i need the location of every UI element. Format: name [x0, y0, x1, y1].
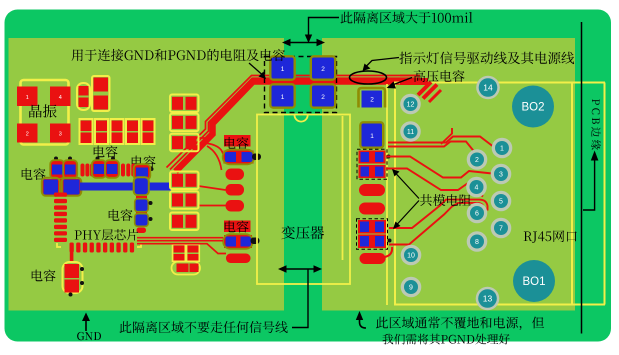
svg-text:12: 12 [407, 102, 415, 109]
label: GND-PGND bridge note [72, 49, 286, 61]
GND arrow [85, 316, 87, 331]
pin 8 [467, 231, 488, 252]
pin 3 [491, 164, 512, 185]
mount pin 14 [476, 76, 500, 100]
bottom edge extension [572, 304, 605, 306]
svg-text:14: 14 [483, 83, 493, 93]
svg-text:1: 1 [26, 95, 29, 101]
pin 5 [491, 191, 512, 212]
pin pill 4 [226, 254, 251, 264]
corner arrow [360, 315, 367, 328]
capacitor pad grid (5 x 2) [80, 119, 93, 144]
red zone under label [224, 221, 251, 233]
crystal pad 4 [50, 87, 71, 107]
svg-text:2: 2 [370, 97, 374, 104]
svg-text:2: 2 [321, 66, 325, 73]
pin 1 [492, 138, 513, 159]
hook to label [583, 160, 595, 210]
svg-text:2: 2 [475, 157, 479, 164]
svg-text:1: 1 [281, 66, 285, 73]
oval 2-pad comp [172, 262, 201, 275]
pin 2 [467, 149, 488, 170]
blue power bus [80, 183, 171, 191]
leader line for isolation note [309, 18, 340, 37]
capacitor C bottom [63, 262, 83, 293]
label: GND [77, 332, 101, 340]
svg-text:1: 1 [370, 133, 374, 140]
red bars [121, 164, 125, 177]
leader down to note [292, 269, 308, 328]
pad 2 [362, 91, 383, 108]
choke caps C/D [358, 220, 386, 234]
svg-text:3: 3 [499, 172, 503, 179]
crystal pad 3 [50, 124, 71, 143]
label: capacitor (xfmr left top) [225, 137, 249, 149]
PCB inner copper plane (yellow-green) [9, 38, 576, 311]
bus end pad [135, 178, 149, 195]
pill 3 [360, 253, 386, 264]
pin 4 [466, 177, 487, 198]
svg-text:BO1: BO1 [522, 276, 545, 288]
isolation width arrow (bottom) [283, 268, 317, 270]
red bus into RJ45 [400, 75, 420, 77]
svg-text:5: 5 [499, 199, 503, 206]
RJ45 region outline [395, 83, 572, 305]
leader to ellipse [366, 58, 400, 68]
transformer pin pills [226, 169, 245, 181]
pin pills [359, 184, 385, 196]
red bars [81, 164, 85, 177]
label: HV capacitor [414, 70, 465, 82]
mount hole BO2 [512, 86, 554, 128]
mid resistor/cap pairs column [170, 95, 199, 113]
PHY bottom pin row [70, 243, 74, 253]
pin 9 [401, 277, 422, 298]
resistor pill (2-pad) [77, 83, 90, 110]
traces PHY to caps [137, 237, 223, 239]
top edge extension [572, 82, 605, 84]
label: isolation gap > 100mil [341, 12, 473, 24]
capacitor C [135, 165, 150, 179]
label: capacitor bottom-left [32, 270, 56, 282]
red zone under label [224, 135, 251, 147]
svg-text:11: 11 [407, 129, 414, 136]
dashed courtyard of GND/PGND bridge [265, 57, 337, 113]
differential traces to pins [388, 137, 493, 147]
svg-text:6: 6 [475, 211, 479, 218]
svg-text:1: 1 [500, 146, 504, 153]
leader from GND/PGND note [249, 63, 262, 75]
pin-1 arc notch [295, 115, 308, 122]
svg-text:4: 4 [59, 95, 62, 101]
label: capacitor (phy right) [109, 209, 133, 221]
2-pad component [92, 76, 110, 111]
svg-text:2: 2 [321, 94, 325, 101]
label: capacitor (grid row) [94, 146, 118, 158]
svg-text:2: 2 [26, 132, 29, 138]
pin dots [54, 157, 58, 161]
emerald-band yellow rail [604, 83, 606, 305]
label: PHY chip [75, 229, 139, 241]
bridge pad 2 [312, 58, 334, 79]
red trace bus (top) [167, 76, 421, 168]
pin 12 [400, 94, 421, 115]
isolation width double arrow [287, 42, 320, 44]
trace from PHY pin down [70, 252, 74, 263]
cap stack right [136, 196, 147, 200]
LED power diagonal bars [418, 82, 431, 95]
label: transformer [282, 226, 325, 240]
pin 6 [467, 203, 488, 224]
svg-text:9: 9 [409, 285, 413, 292]
up arrow head [591, 151, 599, 161]
svg-text:BO2: BO2 [521, 102, 544, 114]
label: common-mode resistors [420, 194, 471, 206]
label: PGND area note line1 [376, 317, 544, 330]
svg-text:10: 10 [407, 253, 415, 260]
2x2 pad group [173, 244, 186, 261]
choke caps A/B [359, 151, 386, 164]
annotation ellipse [350, 71, 387, 84]
svg-text:8: 8 [475, 239, 479, 246]
pin 11 [400, 121, 421, 142]
label: capacitor (right of grid) [132, 156, 156, 168]
bridge pad 1 [272, 58, 294, 79]
capacitor blue-red-blue #2 [224, 235, 252, 248]
capacitor pair B [93, 161, 106, 177]
label: capacitor (xfmr left bottom) [225, 221, 249, 233]
capacitor pair A [51, 161, 64, 178]
trace stubs into mid pairs [199, 131, 213, 138]
svg-text:13: 13 [483, 294, 493, 304]
crystal X1 outline [21, 80, 69, 145]
crystal pad 1 [17, 87, 38, 107]
bridge pad 1 [272, 86, 294, 107]
mount pin 13 [476, 287, 500, 311]
label: crystal [29, 104, 56, 117]
label: no signal lines note [120, 321, 288, 333]
bridge pad 2 [312, 86, 334, 107]
label: LED driver/power lines [399, 52, 574, 65]
pin 10 [401, 245, 422, 266]
label: PCB edge [591, 99, 601, 150]
pin 7 [491, 218, 512, 239]
large capacitor pair [42, 179, 81, 195]
svg-text:3: 3 [59, 132, 62, 138]
label: capacitor (left row) [22, 168, 46, 180]
svg-text:7: 7 [499, 226, 503, 233]
label: RJ45 port [524, 230, 577, 242]
leader to HV cap [391, 78, 412, 86]
mount hole BO1 [513, 260, 555, 302]
PHY left pin column [54, 193, 67, 197]
leaders from common-mode label [395, 173, 419, 199]
capacitor blue-red-blue #1 [224, 151, 254, 164]
crystal pad 2 [17, 124, 38, 143]
HV cap column yellow box [386, 84, 388, 305]
transformer T1 outline [257, 115, 350, 285]
isolation channel strip [284, 38, 322, 311]
svg-text:1: 1 [281, 94, 285, 101]
PHY corner marks [57, 243, 61, 247]
label: PGND area note line2 [383, 334, 510, 345]
svg-text:4: 4 [475, 185, 479, 192]
pad 1 [362, 124, 383, 147]
PCB edge line [581, 22, 583, 334]
down arrowhead [305, 35, 312, 44]
